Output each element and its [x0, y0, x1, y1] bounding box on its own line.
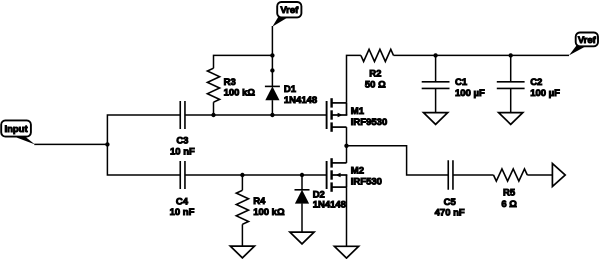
- wire R5 to output port: [527, 174, 552, 176]
- net flag Input: [1, 120, 35, 144]
- svg-text:6 Ω: 6 Ω: [501, 199, 517, 210]
- node R3-gate wire junction: [211, 113, 215, 117]
- svg-text:IRF9530: IRF9530: [351, 117, 387, 128]
- svg-text:100 kΩ: 100 kΩ: [224, 88, 256, 99]
- svg-text:R3: R3: [224, 77, 236, 88]
- node input junction: [105, 142, 109, 146]
- svg-text:IRF530: IRF530: [351, 176, 382, 187]
- capacitor C4: [170, 161, 195, 218]
- svg-text:100 µF: 100 µF: [530, 88, 560, 99]
- ground R4: [230, 246, 254, 258]
- svg-text:Vref: Vref: [578, 35, 597, 46]
- svg-text:Input: Input: [4, 124, 28, 135]
- resistor R4: [236, 175, 285, 246]
- ground C1: [424, 113, 448, 125]
- node D2 junction: [300, 173, 304, 177]
- node output junction: [344, 144, 348, 148]
- wire R2 to Vref right: [394, 54, 570, 56]
- svg-text:M1: M1: [351, 106, 365, 117]
- svg-text:470 nF: 470 nF: [435, 208, 465, 219]
- wire rail R3 to Vref column: [214, 55, 273, 68]
- svg-text:10 nF: 10 nF: [170, 207, 195, 218]
- diode D1: [265, 84, 317, 116]
- ground D2: [290, 232, 314, 244]
- node rail-Vref junction: [270, 53, 274, 57]
- wire output to C5: [347, 146, 449, 175]
- svg-text:C5: C5: [444, 197, 457, 208]
- svg-text:C1: C1: [455, 77, 468, 88]
- diode D2: [295, 175, 346, 232]
- wire C4 to M2 gate: [185, 174, 327, 176]
- svg-text:Vref: Vref: [280, 5, 299, 16]
- wire M1 top lead to R2: [347, 55, 361, 103]
- svg-text:100 µF: 100 µF: [455, 88, 485, 99]
- svg-text:10 nF: 10 nF: [170, 147, 195, 158]
- wire M2 bottom lead: [346, 187, 348, 246]
- output port arrow: [552, 164, 565, 187]
- net flag Vref right: [569, 33, 598, 56]
- transistor M1 IRF9530: [327, 98, 388, 132]
- capacitor C3: [170, 101, 195, 158]
- net flag Vref left: [272, 2, 301, 27]
- svg-text:C3: C3: [176, 135, 188, 146]
- resistor R2: [361, 49, 394, 90]
- wire C5 to R5: [453, 174, 494, 176]
- svg-text:1N4148: 1N4148: [313, 200, 346, 211]
- svg-text:R5: R5: [503, 188, 516, 199]
- svg-text:50 Ω: 50 Ω: [365, 79, 386, 90]
- node C2 junction: [509, 53, 513, 57]
- svg-text:C4: C4: [176, 196, 189, 207]
- resistor R5: [494, 169, 528, 210]
- ground M2: [334, 246, 358, 258]
- wire input to junction: [34, 143, 108, 145]
- wire M1 bottom lead: [346, 127, 348, 146]
- ground C2: [499, 113, 523, 125]
- svg-text:M2: M2: [351, 165, 364, 176]
- wire M2 top lead: [346, 146, 348, 163]
- wire Vref to D1: [271, 26, 273, 86]
- wire C3 to M1 gate: [185, 114, 327, 116]
- svg-text:100 kΩ: 100 kΩ: [253, 207, 285, 218]
- capacitor C2: [497, 55, 560, 112]
- node D1-gate wire junction: [270, 113, 274, 117]
- svg-text:D1: D1: [284, 84, 297, 95]
- capacitor C5: [435, 160, 465, 218]
- svg-text:R4: R4: [253, 196, 266, 207]
- svg-text:C2: C2: [530, 77, 542, 88]
- svg-text:1N4148: 1N4148: [284, 95, 317, 106]
- svg-text:R2: R2: [369, 69, 381, 80]
- node R4 junction: [240, 173, 244, 177]
- resistor R3: [207, 68, 255, 116]
- wire input split to C3 and C4: [107, 115, 180, 175]
- transistor M2 IRF530: [327, 158, 382, 192]
- node C1 junction: [433, 53, 437, 57]
- node Vref wire joint: [270, 68, 274, 72]
- capacitor C1: [422, 55, 485, 112]
